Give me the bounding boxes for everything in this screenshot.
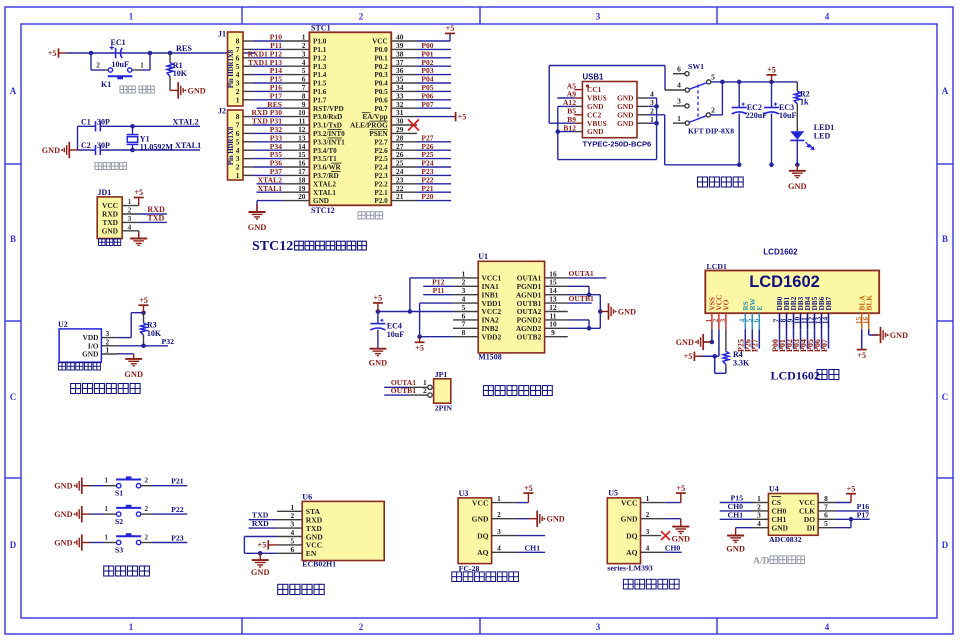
wire MCU pin 19 <box>257 191 284 193</box>
pin 5 U1 <box>453 311 478 313</box>
pin 1 U4 <box>753 502 769 504</box>
caption raindrop sensor <box>623 579 679 589</box>
svg-text:P1.7: P1.7 <box>313 96 327 104</box>
svg-text:GND: GND <box>82 350 98 359</box>
wire MCU pin 4 <box>243 65 253 67</box>
wire MCU pin 3 <box>243 57 253 59</box>
pin name overlines <box>328 113 388 172</box>
svg-text:30P: 30P <box>97 117 110 126</box>
svg-text:+5: +5 <box>48 49 57 58</box>
svg-text:P0.2: P0.2 <box>374 63 388 71</box>
ground (U2) <box>125 354 142 366</box>
wire MCU pin 7 <box>243 90 253 92</box>
svg-text:30P: 30P <box>97 141 110 150</box>
wire MCU pin 15 <box>243 158 253 160</box>
svg-text:4: 4 <box>825 12 830 22</box>
svg-text:A: A <box>942 86 949 96</box>
wire MCU pin 17 <box>243 174 253 176</box>
wire+net label P25 <box>744 329 746 348</box>
node crystal bottom <box>130 148 135 153</box>
wire BLK to gnd <box>868 329 870 335</box>
wire net P20 <box>417 200 451 202</box>
svg-text:EN: EN <box>306 549 317 558</box>
wire net CH1 <box>720 518 753 520</box>
svg-text:4: 4 <box>757 519 761 528</box>
wire DO / net P17 <box>835 518 870 520</box>
svg-text:LCD1602: LCD1602 <box>771 369 820 383</box>
svg-text:1: 1 <box>140 61 144 70</box>
ground (reset) <box>170 82 183 98</box>
wire right gnd pins <box>649 97 657 99</box>
svg-text:2: 2 <box>359 12 364 22</box>
svg-text:P2.3: P2.3 <box>374 172 388 180</box>
wire DI tie <box>835 527 851 529</box>
power +5 (U6) <box>268 540 277 549</box>
svg-text:+5: +5 <box>415 344 424 353</box>
wire VCC2 rail <box>378 311 453 313</box>
pin 6 U4 right <box>818 518 835 520</box>
wire U3 GND <box>516 518 529 520</box>
wire+net label P01 <box>786 329 788 348</box>
svg-text:10K: 10K <box>147 329 162 338</box>
svg-text:GND: GND <box>618 308 636 317</box>
svg-text:P3.6/WR: P3.6/WR <box>313 164 342 172</box>
power +5 (U1) <box>373 303 383 312</box>
ground (LCD left) <box>698 334 711 350</box>
svg-text:LCD1602: LCD1602 <box>763 248 798 257</box>
wire MCU pin 2 <box>243 48 253 50</box>
svg-text:4: 4 <box>497 544 501 553</box>
resistor R4 <box>725 329 727 351</box>
svg-text:VCC: VCC <box>372 38 388 46</box>
svg-text:3.3K: 3.3K <box>733 359 750 368</box>
svg-text:OUTA1: OUTA1 <box>569 269 594 278</box>
pin 3 U1 <box>453 294 478 296</box>
svg-text:Pin HDR1X8: Pin HDR1X8 <box>228 49 235 88</box>
svg-text:GND: GND <box>788 182 807 191</box>
wire S2 left <box>90 513 104 515</box>
svg-text:CH0: CH0 <box>665 543 681 552</box>
svg-text:Pin HDR1X8: Pin HDR1X8 <box>228 126 235 165</box>
pin 14 U1 right <box>545 294 568 296</box>
pin 6 SW1 <box>673 73 685 75</box>
ground (U4) <box>727 528 744 543</box>
svg-text:2: 2 <box>96 61 100 70</box>
capacitor EC1 <box>110 45 123 58</box>
caption power circuit <box>698 177 744 187</box>
svg-text:C: C <box>942 392 949 402</box>
power +5 (VDD) <box>415 337 425 343</box>
pin 1 U1 <box>453 277 478 279</box>
capacitor EC2 <box>738 82 740 108</box>
svg-text:VCC: VCC <box>472 498 488 507</box>
svg-text:DQ: DQ <box>626 531 637 540</box>
capacitor C1 <box>96 121 101 131</box>
pin 26 MCU right <box>391 158 417 160</box>
svg-text:P0.5: P0.5 <box>374 88 388 96</box>
svg-text:GND: GND <box>587 127 603 136</box>
wire MCU pin 12 <box>243 132 253 134</box>
svg-text:VO: VO <box>722 299 731 310</box>
wire+net label P05 <box>814 329 816 348</box>
button K1 <box>108 68 112 72</box>
pin 3 U3 <box>492 535 517 537</box>
ground (EC4) <box>369 348 386 356</box>
svg-text:+5: +5 <box>767 66 776 75</box>
svg-text:GND: GND <box>102 226 118 235</box>
power +5 (reset) <box>59 48 67 57</box>
power +5 (U2) <box>139 305 149 313</box>
wire S1 left <box>90 485 104 487</box>
svg-text:PSEN: PSEN <box>369 130 388 138</box>
wire+net label P07 <box>828 329 830 348</box>
wire S3 right / net P23 <box>141 542 152 544</box>
svg-text:ADC0832: ADC0832 <box>769 535 802 544</box>
switch lever blue slants <box>689 83 707 123</box>
pin 1 SW1 <box>673 122 685 124</box>
svg-text:4: 4 <box>128 222 132 231</box>
wire S2 right / net P22 <box>141 513 152 515</box>
svg-text:5: 5 <box>824 519 828 528</box>
svg-text:P1.1: P1.1 <box>313 46 327 54</box>
caption independent keys <box>104 566 150 576</box>
button S2 <box>117 512 121 516</box>
wire EA/Vpp to +5 <box>417 116 453 118</box>
svg-text:DB7: DB7 <box>824 296 833 310</box>
ground (JD1) <box>130 231 147 246</box>
pin 34 MCU right <box>391 90 417 92</box>
svg-text:10uF: 10uF <box>112 60 129 69</box>
svg-text:E: E <box>755 306 764 311</box>
pin 39 MCU right <box>391 48 417 50</box>
svg-text:EA/Vpp: EA/Vpp <box>363 113 388 121</box>
ground (MCU) <box>249 204 266 219</box>
wire PGND2/AGND2 <box>568 319 589 321</box>
wire net CH0 <box>720 510 753 512</box>
wire net OUTA1 (JP1) <box>384 386 409 388</box>
svg-text:4: 4 <box>825 622 830 632</box>
wire MCU pin 8 <box>243 99 253 101</box>
wire U6 RXD net <box>249 527 278 529</box>
node crystal top <box>130 124 135 129</box>
svg-text:P0.4: P0.4 <box>374 80 388 88</box>
svg-text:GND: GND <box>617 119 633 128</box>
button S1 <box>117 484 121 488</box>
svg-text:3: 3 <box>497 527 501 536</box>
svg-text:P0.3: P0.3 <box>374 71 388 79</box>
svg-text:6: 6 <box>677 64 681 73</box>
svg-text:+5: +5 <box>139 296 148 305</box>
pin 5 U6 <box>277 544 302 546</box>
svg-text:GND: GND <box>671 535 690 544</box>
wire JD1 GND <box>138 231 140 239</box>
svg-text:CH1: CH1 <box>525 543 541 552</box>
svg-text:OUTB1: OUTB1 <box>569 294 595 303</box>
svg-text:GND: GND <box>369 359 388 368</box>
svg-text:XTAL1: XTAL1 <box>313 189 336 197</box>
caption temp sensor (navy small) <box>58 363 100 370</box>
svg-text:J2: J2 <box>218 107 226 116</box>
power +5 (EA) <box>453 112 456 121</box>
svg-text:5: 5 <box>711 73 715 82</box>
svg-text:P2.5: P2.5 <box>374 155 388 163</box>
wire U1 VCC1 branch <box>410 277 453 279</box>
svg-text:GND: GND <box>772 523 788 532</box>
svg-text:3: 3 <box>596 622 601 632</box>
svg-text:1: 1 <box>497 494 501 503</box>
caption download port <box>99 239 121 246</box>
wire net P07 <box>417 107 451 109</box>
svg-text:1: 1 <box>129 622 134 632</box>
wire net P03 <box>417 74 451 76</box>
pin 13 U1 right <box>545 302 568 304</box>
svg-text:+5: +5 <box>374 294 383 303</box>
svg-text:1: 1 <box>646 494 650 503</box>
pin 4 U1 <box>453 302 478 304</box>
wire VDD loop <box>117 337 131 339</box>
wire MCU pin 14 <box>243 149 253 151</box>
wire R4 loop <box>714 356 716 373</box>
wire net P11 <box>423 294 453 296</box>
svg-text:GND: GND <box>54 539 72 548</box>
svg-text:A: A <box>10 86 17 96</box>
pin 4 U6 <box>277 536 302 538</box>
svg-text:P07: P07 <box>820 339 829 352</box>
svg-text:P3.3/INT1: P3.3/INT1 <box>313 138 345 146</box>
svg-text:21: 21 <box>396 192 404 201</box>
svg-text:P2.4: P2.4 <box>374 164 388 172</box>
svg-text:A/D: A/D <box>753 557 770 567</box>
pin 40 MCU right <box>391 40 417 42</box>
wire A9 VBUS loop <box>557 97 574 99</box>
svg-text:1: 1 <box>129 12 134 22</box>
pin 2 U3 <box>492 518 517 520</box>
no-connect X (U5 DQ) <box>661 531 670 540</box>
svg-text:S2: S2 <box>115 517 123 526</box>
svg-text:GND: GND <box>54 510 72 519</box>
pin 30 MCU right <box>391 124 417 126</box>
svg-text:S1: S1 <box>115 489 123 498</box>
wire U5 VCC / +5 <box>665 502 681 504</box>
svg-text:P2.6: P2.6 <box>374 147 388 155</box>
svg-text:series-LM393: series-LM393 <box>607 564 653 573</box>
no-connect X (ALE) <box>408 119 419 130</box>
ground (U5) <box>672 519 689 534</box>
ground (crystal) <box>64 142 77 158</box>
pin 1 U6 <box>277 510 302 512</box>
svg-text:P3.7/RD: P3.7/RD <box>313 172 339 180</box>
svg-text:U3: U3 <box>459 489 469 498</box>
pin 4 JD1 <box>122 230 139 232</box>
wire net P12 <box>423 285 453 287</box>
svg-text:GND: GND <box>676 338 694 347</box>
pin 3 U4 <box>753 518 769 520</box>
wire U5 AQ / net CH0 <box>665 551 682 553</box>
pin 27 MCU right <box>391 149 417 151</box>
svg-text:1k: 1k <box>800 98 809 107</box>
ground (U3) <box>529 511 542 527</box>
wire MCU GND down <box>256 201 258 212</box>
svg-text:GND: GND <box>251 568 270 577</box>
svg-text:GND: GND <box>42 146 60 155</box>
svg-text:GND: GND <box>188 86 206 95</box>
wire U4 gnd <box>736 527 753 529</box>
wire U3 AQ / net CH1 <box>516 551 545 553</box>
svg-text:M1508: M1508 <box>478 353 502 362</box>
svg-text:OUTB2: OUTB2 <box>517 332 542 341</box>
pin 8 U4 right <box>818 502 835 504</box>
pin 4 U3 <box>492 551 517 553</box>
svg-text:+5: +5 <box>134 188 143 197</box>
svg-text:P1.5: P1.5 <box>313 80 327 88</box>
wire U3 DQ <box>516 535 545 537</box>
svg-text:P3.0/RxD: P3.0/RxD <box>313 113 342 121</box>
wire net P06 <box>417 99 451 101</box>
pin 2 USB1 right <box>637 114 649 116</box>
svg-text:P21: P21 <box>171 477 184 486</box>
svg-text:+5: +5 <box>258 541 267 550</box>
svg-text:XTAL2: XTAL2 <box>313 180 336 188</box>
wire PGND1/AGND1 <box>568 285 589 287</box>
svg-text:KFT DIP-8X8: KFT DIP-8X8 <box>688 127 734 136</box>
svg-text:P1.4: P1.4 <box>313 71 327 79</box>
wire MCU pin 13 <box>243 141 253 143</box>
pin 4 U5 <box>641 551 665 553</box>
svg-text:P3.5/T1: P3.5/T1 <box>313 155 337 163</box>
caption reset (gray) <box>120 86 135 93</box>
svg-text:2PIN: 2PIN <box>435 404 453 413</box>
pin 3 USB1 right <box>637 105 649 107</box>
pin 1 U2 <box>101 353 117 355</box>
pin 24 MCU right <box>391 174 417 176</box>
pin 2 SW1 <box>706 113 710 117</box>
wire net P24 <box>417 166 451 168</box>
pin 6 U1 <box>453 319 478 321</box>
svg-text:SW1: SW1 <box>688 62 704 71</box>
power +5 (rail) <box>767 75 777 82</box>
wire +5 to RES <box>66 52 255 54</box>
svg-text:20: 20 <box>298 192 306 201</box>
svg-text:3: 3 <box>646 527 650 536</box>
pin 2 U6 <box>277 519 302 521</box>
wire MCU pin 16 <box>243 166 253 168</box>
svg-text:XTAL1: XTAL1 <box>258 184 283 193</box>
svg-text:2: 2 <box>144 504 148 513</box>
pin 4 U4 <box>753 527 769 529</box>
svg-text:TYPEC-250D-BCP6: TYPEC-250D-BCP6 <box>583 139 652 148</box>
wire VDD1/VDD2 tie <box>420 302 454 304</box>
ground (U6) <box>252 553 269 567</box>
svg-text:U6: U6 <box>302 493 312 502</box>
svg-text:P3.4/T0: P3.4/T0 <box>313 147 337 155</box>
pin 9 U1 right <box>545 336 568 338</box>
ground (button S2) <box>77 506 90 522</box>
pin 23 MCU right <box>391 183 417 185</box>
svg-text:P1.3: P1.3 <box>313 63 327 71</box>
svg-text:P23: P23 <box>171 533 184 542</box>
wire LCD VSS to gnd <box>711 329 713 342</box>
wire crystal bottom row <box>78 149 96 151</box>
wire OUTA1 <box>568 277 607 279</box>
svg-text:AQ: AQ <box>477 548 488 557</box>
svg-text:TXD: TXD <box>147 214 164 223</box>
wire usb gnd bottom loop <box>558 159 657 161</box>
wire net P22 <box>417 183 451 185</box>
svg-text:2: 2 <box>497 510 501 519</box>
svg-text:6: 6 <box>290 545 294 554</box>
wire button row <box>91 69 104 71</box>
svg-text:VCC: VCC <box>621 498 637 507</box>
svg-text:4: 4 <box>677 81 681 90</box>
wire crystal top row <box>78 125 96 127</box>
wire gnd vertical <box>77 126 79 150</box>
pin 22 MCU right <box>391 191 417 193</box>
svg-text:+5: +5 <box>524 484 533 493</box>
wire S1 right / net P21 <box>141 485 152 487</box>
svg-text:GND: GND <box>472 515 489 524</box>
svg-text:B: B <box>10 234 16 244</box>
wire S3 left <box>90 542 104 544</box>
node junctions reset <box>89 51 94 56</box>
pin 7 U1 <box>453 327 478 329</box>
pin 35 MCU right <box>391 82 417 84</box>
wire OUTB1 <box>568 302 592 304</box>
ground (button S1) <box>77 478 90 494</box>
svg-text:ECB02H1: ECB02H1 <box>302 560 336 569</box>
wire gnd U2 <box>117 353 133 355</box>
wire net P02 <box>417 65 451 67</box>
svg-text:P07: P07 <box>421 100 433 109</box>
svg-text:GND: GND <box>313 197 329 205</box>
svg-text:P1.6: P1.6 <box>313 88 327 96</box>
svg-text:GND: GND <box>248 223 267 232</box>
wire U6 gnd loop <box>244 536 277 538</box>
caption DC motor drive <box>483 386 552 396</box>
ground (LCD right) <box>872 327 885 343</box>
svg-text:1: 1 <box>104 504 108 513</box>
svg-text:JP1: JP1 <box>435 370 448 379</box>
svg-text:+5: +5 <box>684 352 693 361</box>
wire net P26 <box>417 149 451 151</box>
caption crystal (gray) <box>95 163 127 170</box>
ground (power) <box>789 165 806 178</box>
resistor R1 <box>169 53 171 63</box>
capacitor EC3 <box>771 82 773 108</box>
wire JD1 TXD <box>139 221 167 223</box>
wire A12/B12 gnd vertical <box>558 105 575 107</box>
wire B9 VBUS <box>549 122 574 124</box>
svg-text:GND: GND <box>124 370 143 379</box>
wire gnd rail <box>737 163 742 168</box>
svg-text:2: 2 <box>423 386 427 395</box>
pin 3 SW1 <box>673 105 685 107</box>
wire U3 VCC / +5 <box>516 502 528 504</box>
pin 2 U2 <box>101 345 117 347</box>
pin 32 MCU right <box>391 107 417 109</box>
pin 25 MCU right <box>391 166 417 168</box>
svg-text:LED: LED <box>814 132 831 141</box>
capacitor EC4 <box>377 312 379 324</box>
svg-text:U4: U4 <box>769 485 779 494</box>
svg-text:B: B <box>942 234 948 244</box>
wire VCC to +5 <box>417 40 450 42</box>
svg-text:AQ: AQ <box>626 548 637 557</box>
svg-text:P27: P27 <box>751 339 760 352</box>
svg-text:1: 1 <box>104 533 108 542</box>
svg-text:P3.2/INT0: P3.2/INT0 <box>313 130 345 138</box>
svg-text:GND: GND <box>54 482 72 491</box>
wire MCU pin 9 <box>257 107 284 109</box>
